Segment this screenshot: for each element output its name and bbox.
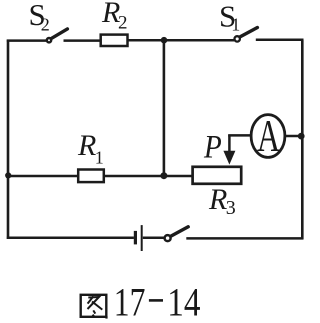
ammeter A (251, 112, 285, 162)
svg-text:1: 1 (95, 148, 104, 168)
wire middle vertical (163, 40, 166, 176)
svg-text:1: 1 (231, 15, 240, 35)
resistor R1 (78, 170, 104, 183)
label R1 (77, 129, 104, 168)
switch S1 (235, 28, 258, 42)
wire bottom: left corner to battery (7, 236, 134, 239)
svg-text:A: A (257, 112, 280, 162)
label S2 (29, 0, 50, 35)
svg-text:2: 2 (118, 13, 128, 34)
svg-text:14: 14 (167, 280, 200, 323)
label R3 (208, 183, 236, 219)
wire top: S1 to top right corner (256, 38, 304, 41)
wiper P of R3 (arrow) (223, 135, 235, 165)
svg-text:P: P (203, 128, 222, 165)
rheostat R3 body (193, 167, 242, 184)
node junction of middle branch on top wire (161, 37, 168, 44)
label S1 (219, 0, 240, 35)
caption dash (149, 299, 163, 302)
svg-text:R: R (208, 183, 227, 216)
wire right vertical (301, 40, 304, 239)
main switch in battery branch (165, 227, 189, 241)
wire top: left corner to switch S2 (7, 39, 46, 42)
switch S2 (47, 29, 68, 43)
svg-text:3: 3 (226, 197, 236, 219)
wire top: S2 to resistor R2 (64, 39, 101, 42)
wire battery to main switch (143, 236, 164, 239)
wire bottom: switch to bottom right corner (186, 237, 303, 240)
battery positive plate (long thin) (141, 225, 143, 251)
wire ammeter to right wire (285, 135, 303, 138)
caption character 图 (81, 295, 107, 319)
svg-text:2: 2 (41, 15, 50, 35)
wire left vertical (7, 40, 10, 240)
wire wiper to ammeter (228, 134, 251, 137)
wire R1 to rheostat R3 (104, 175, 192, 178)
resistor R2 (101, 35, 128, 46)
svg-text:17: 17 (114, 280, 146, 323)
node right junction (298, 133, 305, 140)
label R2 (101, 0, 128, 34)
wire R1 branch: left wire to R1 (7, 175, 78, 178)
svg-text:R: R (77, 129, 96, 162)
wire top: R2 to switch S1 (128, 39, 234, 42)
battery negative plate (short thick) (134, 231, 137, 245)
node middle junction (160, 172, 167, 179)
node left junction on left wire (5, 172, 11, 178)
